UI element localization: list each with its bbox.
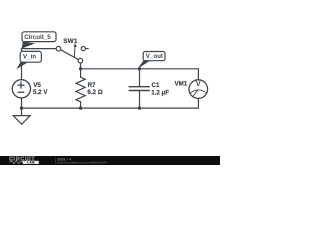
wire top rail from junction to voltmeter branch xyxy=(81,69,199,80)
voltmeter VM1 xyxy=(189,80,208,99)
junction node at C1 top xyxy=(138,67,141,70)
svg-text:6.2 Ω: 6.2 Ω xyxy=(87,89,102,96)
watermark separator xyxy=(55,157,57,164)
svg-text:V_in: V_in xyxy=(23,54,36,61)
svg-text:5.2 V: 5.2 V xyxy=(33,89,48,96)
svg-text:SW1: SW1 xyxy=(63,38,78,45)
label V5 value xyxy=(33,82,48,96)
svg-text:R7: R7 xyxy=(88,82,96,89)
svg-text:V: V xyxy=(196,81,201,88)
node flag V_in xyxy=(16,51,41,69)
wire from switch pole down to node junction xyxy=(80,63,82,69)
junction node at R7 bottom xyxy=(79,106,82,109)
svg-text:Circuit_5: Circuit_5 xyxy=(24,34,51,41)
label C1 value xyxy=(151,82,169,96)
svg-text:LAB: LAB xyxy=(27,161,35,165)
resistor R7 xyxy=(76,69,85,108)
capacitor C1 xyxy=(129,69,150,108)
watermark bar xyxy=(0,156,220,165)
svg-text:V5: V5 xyxy=(33,82,41,89)
watermark logo zigzag xyxy=(9,161,22,164)
wire from V5 top to corner and to switch left terminal xyxy=(22,49,57,80)
watermark logo LAB box xyxy=(23,161,39,164)
node flag Circuit_5 xyxy=(22,32,57,49)
wire bottom rail xyxy=(22,98,199,108)
switch SW1 xyxy=(56,43,88,63)
wire V5 bottom to ground rail xyxy=(21,98,23,108)
svg-text:http://circuitlab.com/c2v65997: http://circuitlab.com/c2v65997ydh74 xyxy=(57,160,107,164)
svg-text:V_out: V_out xyxy=(146,53,163,60)
junction node at ground xyxy=(20,106,23,109)
ground xyxy=(13,108,30,124)
svg-text:C1: C1 xyxy=(152,82,160,89)
voltage source V5 xyxy=(12,80,30,98)
junction node at C1 bottom xyxy=(138,106,141,109)
label R7 value xyxy=(87,82,102,96)
svg-text:VM1: VM1 xyxy=(175,81,188,88)
junction node at switch/R7/top rail xyxy=(79,67,82,70)
svg-text:1.2 μF: 1.2 μF xyxy=(151,89,169,96)
node flag V_out xyxy=(138,52,165,69)
